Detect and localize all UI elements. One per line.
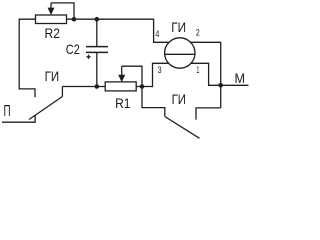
node: junction top rail / C2 — [95, 17, 100, 22]
svg-text:2: 2 — [196, 28, 200, 38]
svg-text:П: П — [3, 103, 10, 120]
switch contact ГИ (bottom) right fixed contact — [196, 108, 221, 120]
pulse generator ГИ (circle with chord) — [165, 38, 195, 68]
wire: R2 left lead — [19, 18, 35, 20]
wire: bottom rail to R1 — [62, 86, 105, 88]
svg-text:3: 3 — [158, 65, 162, 75]
svg-text:M: M — [234, 70, 245, 86]
svg-text:ГИ: ГИ — [171, 19, 186, 35]
wire: R2 wiper return (up, right, down to top rail) — [51, 3, 74, 19]
wire: riser to pin 3 and lead into circle — [153, 63, 169, 87]
svg-text:ГИ: ГИ — [45, 68, 60, 84]
svg-text:R1: R1 — [115, 95, 131, 111]
potentiometer R2 — [36, 3, 67, 24]
svg-text:C2: C2 — [66, 41, 80, 57]
capacitor C2 — [86, 19, 108, 86]
svg-text:ГИ: ГИ — [172, 91, 186, 107]
node: junction bottom rail / C2 — [95, 84, 100, 89]
node: junction R1 right / wiper / switch — [140, 84, 145, 89]
switch blade of ГИ contact (bottom) — [165, 117, 200, 139]
wire: pin 4 drop and lead into circle — [154, 19, 170, 43]
wire: M rail — [208, 84, 249, 86]
wire: left vertical drop to switch — [18, 19, 20, 89]
node: junction M rail / pin 2 drop — [218, 83, 223, 88]
wire: pin 2 lead, drop through M rail to switch — [190, 42, 220, 108]
potentiometer R1 — [105, 66, 136, 91]
wire: R1 wiper return (up, right, down to right lead) — [122, 66, 142, 86]
switch blade of П/ГИ contact (left) — [29, 97, 62, 120]
wire: pin 1 lead and drop to M rail — [191, 63, 209, 85]
switch contact ГИ (bottom) left pivot wire — [142, 87, 165, 117]
switch contact ГИ (left) fixed contact L-wire — [19, 89, 35, 97]
wire: top rail from R2 to pin 4 corner — [67, 18, 154, 20]
wire: R1 right lead — [136, 86, 153, 88]
terminal П lead wire — [2, 115, 35, 122]
svg-text:4: 4 — [155, 29, 159, 39]
svg-text:R2: R2 — [45, 25, 61, 41]
wire: blade stub up to bottom rail — [61, 87, 63, 97]
svg-text:1: 1 — [196, 65, 199, 75]
node: junction top rail / R2 wiper — [72, 17, 77, 22]
